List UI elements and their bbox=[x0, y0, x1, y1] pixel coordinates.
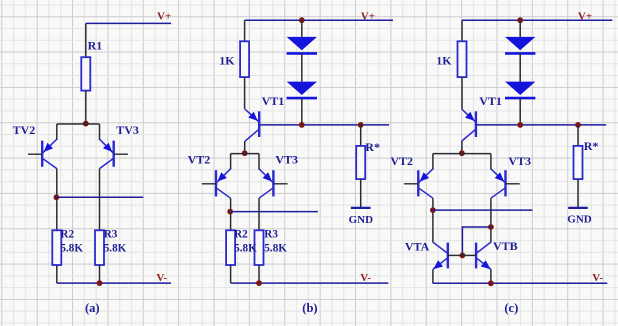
svg-text:R*: R* bbox=[365, 140, 380, 154]
wire VT1 collector pin c bbox=[461, 141, 463, 154]
svg-text:R1: R1 bbox=[88, 39, 103, 53]
wire left emitter pin VT2 c bbox=[432, 154, 434, 170]
node junction a-vminus bbox=[97, 280, 103, 286]
ground symbol circuit c bbox=[568, 207, 588, 209]
wire R1 bottom pin bbox=[85, 91, 87, 124]
node junction b-vminus bbox=[256, 280, 262, 286]
wire jog to pair a bbox=[57, 123, 100, 125]
wire mirror jog c bbox=[462, 227, 491, 255]
svg-text:5.8K: 5.8K bbox=[264, 242, 287, 254]
svg-text:VTB: VTB bbox=[493, 239, 518, 253]
resistor R3 circuit b bbox=[255, 230, 264, 265]
wire Rstar top pin b bbox=[360, 125, 362, 146]
transistor VTB bbox=[462, 242, 491, 269]
node junction c mirror-top bbox=[488, 224, 494, 230]
node junction c-out bbox=[430, 207, 436, 213]
transistor VT2 circuit b bbox=[202, 169, 231, 198]
svg-text:V+: V+ bbox=[361, 10, 375, 22]
wire jog to pair b bbox=[231, 153, 259, 155]
wire diode pin from V+ b bbox=[301, 20, 303, 37]
diode D1 circuit c bbox=[505, 37, 535, 54]
node junction c-vminus bbox=[488, 280, 494, 286]
wire output line c bbox=[433, 209, 533, 211]
wire Rstar top pin c bbox=[577, 125, 579, 146]
resistor 1K circuit c bbox=[458, 41, 467, 77]
node junction b Rstar bbox=[358, 122, 364, 128]
wire 1K top pin c bbox=[461, 20, 463, 41]
node junction b-out bbox=[227, 209, 233, 215]
svg-text:VT2: VT2 bbox=[188, 153, 211, 167]
svg-text:5.8K: 5.8K bbox=[60, 242, 83, 254]
wire V+ rail circuit c bbox=[462, 19, 612, 21]
node junction b diode top bbox=[299, 17, 305, 23]
wire R3 bottom pin b bbox=[258, 265, 260, 283]
transistor VTA bbox=[433, 242, 463, 269]
wire V+ rail circuit b bbox=[245, 19, 393, 21]
svg-text:VT1: VT1 bbox=[262, 94, 285, 108]
diode D1 circuit b bbox=[287, 37, 317, 54]
node junction a-top bbox=[83, 121, 89, 127]
svg-text:VT2: VT2 bbox=[390, 154, 413, 168]
transistor VT1 circuit c bbox=[462, 109, 476, 141]
svg-text:R3: R3 bbox=[264, 228, 278, 240]
transistor VT3 circuit b bbox=[259, 169, 288, 198]
resistor R3 circuit a bbox=[95, 230, 104, 265]
wire left collector column b bbox=[230, 198, 232, 230]
svg-text:VTA: VTA bbox=[405, 240, 430, 254]
svg-text:(a): (a) bbox=[85, 301, 100, 315]
wire R1 top pin bbox=[85, 23, 87, 57]
svg-text:GND: GND bbox=[349, 214, 374, 226]
svg-text:V-: V- bbox=[360, 272, 371, 284]
wire V+ rail circuit a bbox=[86, 22, 171, 24]
svg-text:VT3: VT3 bbox=[508, 154, 531, 168]
resistor Rstar circuit c bbox=[574, 146, 583, 179]
resistor 1K circuit b bbox=[240, 41, 249, 77]
diode D2 circuit b bbox=[287, 82, 317, 99]
node junction c pair-top bbox=[459, 150, 465, 156]
wire between diodes b bbox=[301, 53, 303, 81]
resistor R2 circuit a bbox=[52, 230, 61, 265]
wire left collector column a bbox=[56, 169, 58, 231]
wire VT1 base line circuit b bbox=[260, 124, 389, 126]
svg-text:R*: R* bbox=[584, 139, 599, 153]
node junction a-out bbox=[54, 194, 60, 200]
wire right emitter pin VT3 b bbox=[258, 154, 260, 170]
svg-text:R2: R2 bbox=[60, 228, 74, 240]
wire V- rail circuit c bbox=[433, 282, 607, 284]
wire left collector column c bbox=[432, 198, 434, 242]
wire VT1 base line circuit c bbox=[477, 124, 607, 126]
svg-text:V+: V+ bbox=[157, 10, 171, 22]
wire jog to pair c bbox=[433, 153, 491, 155]
wire VT1 collector pin b bbox=[244, 141, 246, 154]
resistor Rstar circuit b bbox=[356, 146, 365, 179]
wire 1K top pin b bbox=[244, 20, 246, 41]
wire 1K bottom pin b bbox=[244, 77, 246, 109]
wire Rstar bottom pin b bbox=[360, 179, 362, 208]
ground symbol circuit b bbox=[351, 207, 371, 209]
wire right emitter pin VT3 c bbox=[490, 154, 492, 170]
wire R2 bottom pin a bbox=[56, 265, 58, 283]
transistor TV3 bbox=[100, 139, 128, 168]
wire left emitter pin TV2 bbox=[56, 124, 58, 140]
svg-text:(b): (b) bbox=[302, 301, 317, 315]
svg-text:(c): (c) bbox=[504, 301, 518, 315]
wire right collector column b bbox=[258, 198, 260, 230]
wire between diodes c bbox=[519, 53, 521, 81]
svg-text:5.8K: 5.8K bbox=[234, 242, 257, 254]
wire R2 bottom pin b bbox=[230, 265, 232, 283]
svg-text:VT3: VT3 bbox=[275, 153, 298, 167]
wire VTB emitter pin bbox=[490, 269, 492, 283]
svg-text:1K: 1K bbox=[436, 53, 452, 67]
wire diode bottom pin b bbox=[301, 98, 303, 125]
transistor VT1 circuit b bbox=[245, 109, 259, 141]
svg-text:R3: R3 bbox=[104, 228, 118, 240]
wire V- rail circuit a bbox=[57, 282, 171, 284]
wire output line a bbox=[56, 196, 143, 198]
transistor TV2 bbox=[28, 139, 57, 168]
wire left emitter pin VT2 b bbox=[230, 154, 232, 170]
svg-text:R2: R2 bbox=[234, 228, 248, 240]
wire VTA emitter pin bbox=[432, 269, 434, 283]
wire V- rail circuit b bbox=[231, 282, 389, 284]
node junction c diodes-base bbox=[517, 122, 523, 128]
node junction c Rstar bbox=[575, 122, 581, 128]
svg-text:5.8K: 5.8K bbox=[104, 242, 127, 254]
svg-text:V+: V+ bbox=[578, 10, 592, 22]
svg-text:V-: V- bbox=[156, 272, 167, 284]
transistor VT2 circuit c bbox=[404, 169, 433, 198]
svg-text:TV3: TV3 bbox=[116, 123, 139, 137]
wire right collector column a bbox=[99, 169, 101, 231]
transistor VT3 circuit c bbox=[491, 169, 520, 198]
wire right emitter pin TV3 bbox=[99, 124, 101, 140]
node junction b pair-top bbox=[242, 150, 248, 156]
svg-text:TV2: TV2 bbox=[13, 123, 36, 137]
svg-text:VT1: VT1 bbox=[479, 94, 502, 108]
wire diode pin from V+ c bbox=[519, 20, 521, 37]
resistor R1 bbox=[81, 57, 90, 90]
svg-text:GND: GND bbox=[567, 214, 592, 226]
wire diode bottom pin c bbox=[519, 98, 521, 125]
wire right collector column c bbox=[490, 198, 492, 242]
svg-text:1K: 1K bbox=[219, 53, 235, 67]
svg-text:V-: V- bbox=[592, 272, 603, 284]
resistor R2 circuit b bbox=[226, 230, 235, 265]
node junction c diode top bbox=[517, 17, 523, 23]
wire Rstar bottom pin c bbox=[577, 179, 579, 208]
wire 1K bottom pin c bbox=[461, 77, 463, 109]
node junction b diodes-base bbox=[299, 122, 305, 128]
node junction c mirror-base bbox=[460, 253, 466, 259]
wire output line b bbox=[230, 211, 318, 213]
wire R3 bottom pin a bbox=[99, 265, 101, 283]
diode D2 circuit c bbox=[505, 82, 535, 99]
